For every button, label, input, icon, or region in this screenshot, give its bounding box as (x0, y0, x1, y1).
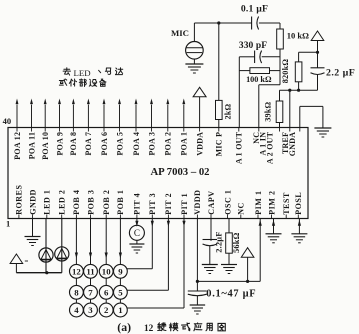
svg-text:A 2 OUT: A 2 OUT (265, 131, 274, 164)
svg-text:POA 12: POA 12 (13, 132, 22, 160)
svg-text:10 kΩ: 10 kΩ (287, 31, 309, 41)
svg-text:CAPV: CAPV (207, 190, 216, 214)
svg-text:PIM 1: PIM 1 (254, 190, 263, 214)
svg-text:56kΩ: 56kΩ (232, 232, 241, 253)
svg-text:12: 12 (72, 266, 81, 276)
svg-text:PIM 2: PIM 2 (267, 190, 276, 214)
svg-text:POA 3: POA 3 (147, 132, 156, 156)
svg-text:LED: LED (74, 68, 91, 78)
svg-text:0.1 µF: 0.1 µF (241, 3, 268, 14)
svg-text:GNDD: GNDD (28, 189, 37, 215)
svg-text:PIT 2: PIT 2 (164, 193, 173, 215)
svg-text:MIC P: MIC P (215, 132, 224, 157)
svg-text:POA 6: POA 6 (100, 132, 109, 156)
svg-text:LED 2: LED 2 (58, 190, 67, 215)
svg-text:MIC: MIC (171, 28, 189, 38)
svg-text:9: 9 (118, 266, 123, 276)
svg-text:AP 7003 – 02: AP 7003 – 02 (150, 166, 209, 178)
svg-text:100 kΩ: 100 kΩ (246, 75, 272, 84)
svg-text:POA 9: POA 9 (55, 132, 64, 156)
svg-text:VDDD: VDDD (193, 189, 202, 214)
svg-text:POA 8: POA 8 (69, 132, 78, 156)
svg-text:10: 10 (102, 266, 111, 276)
svg-text:NC: NC (237, 202, 246, 215)
svg-text:820kΩ: 820kΩ (281, 59, 290, 84)
svg-text:OSC 1: OSC 1 (223, 190, 232, 215)
svg-text:1: 1 (6, 219, 10, 229)
svg-text:POA 11: POA 11 (27, 132, 36, 159)
svg-text:PIT 1: PIT 1 (180, 193, 189, 215)
svg-text:VDDA: VDDA (195, 132, 204, 156)
svg-text:PIT 3: PIT 3 (148, 193, 157, 215)
svg-text:POA 2: POA 2 (164, 132, 173, 156)
svg-text:RORES: RORES (15, 184, 24, 214)
svg-text:5: 5 (118, 287, 123, 297)
svg-text:POA 5: POA 5 (115, 132, 124, 156)
svg-text:40: 40 (3, 116, 12, 126)
svg-text:6: 6 (104, 287, 109, 297)
svg-text:0.1~47 µF: 0.1~47 µF (206, 289, 256, 300)
svg-text:8: 8 (74, 287, 79, 297)
svg-text:2kΩ: 2kΩ (223, 103, 232, 119)
svg-text:LED 1: LED 1 (43, 190, 52, 215)
svg-text:POA 1: POA 1 (180, 132, 189, 156)
svg-text:POB 4: POB 4 (72, 190, 81, 215)
svg-text:3: 3 (88, 305, 93, 315)
svg-text:A 1 OUT: A 1 OUT (235, 131, 244, 164)
svg-text:TEST: TEST (282, 192, 291, 215)
svg-text:2.2µF: 2.2µF (215, 231, 224, 252)
svg-text:1: 1 (118, 305, 122, 315)
svg-text:POSL: POSL (294, 192, 303, 215)
svg-text:POA 7: POA 7 (84, 132, 93, 156)
svg-text:2.2 µF: 2.2 µF (326, 67, 355, 78)
svg-text:POB 2: POB 2 (102, 190, 111, 215)
svg-text:39kΩ: 39kΩ (263, 101, 272, 121)
svg-text:2: 2 (104, 305, 109, 315)
svg-text:330 pF: 330 pF (239, 41, 267, 51)
svg-text:7: 7 (88, 287, 93, 297)
svg-text:POB 3: POB 3 (86, 190, 95, 215)
svg-text:C: C (134, 228, 140, 238)
svg-text:GNDA: GNDA (288, 132, 297, 156)
svg-text:12: 12 (144, 324, 154, 334)
svg-text:POA 10: POA 10 (41, 132, 50, 160)
svg-text:11: 11 (86, 266, 94, 276)
svg-text:POA 4: POA 4 (132, 132, 141, 156)
svg-text:PIT 4: PIT 4 (133, 193, 142, 215)
svg-text:POB 1: POB 1 (116, 190, 125, 215)
svg-text:(a): (a) (117, 320, 131, 334)
svg-text:4: 4 (74, 305, 79, 315)
